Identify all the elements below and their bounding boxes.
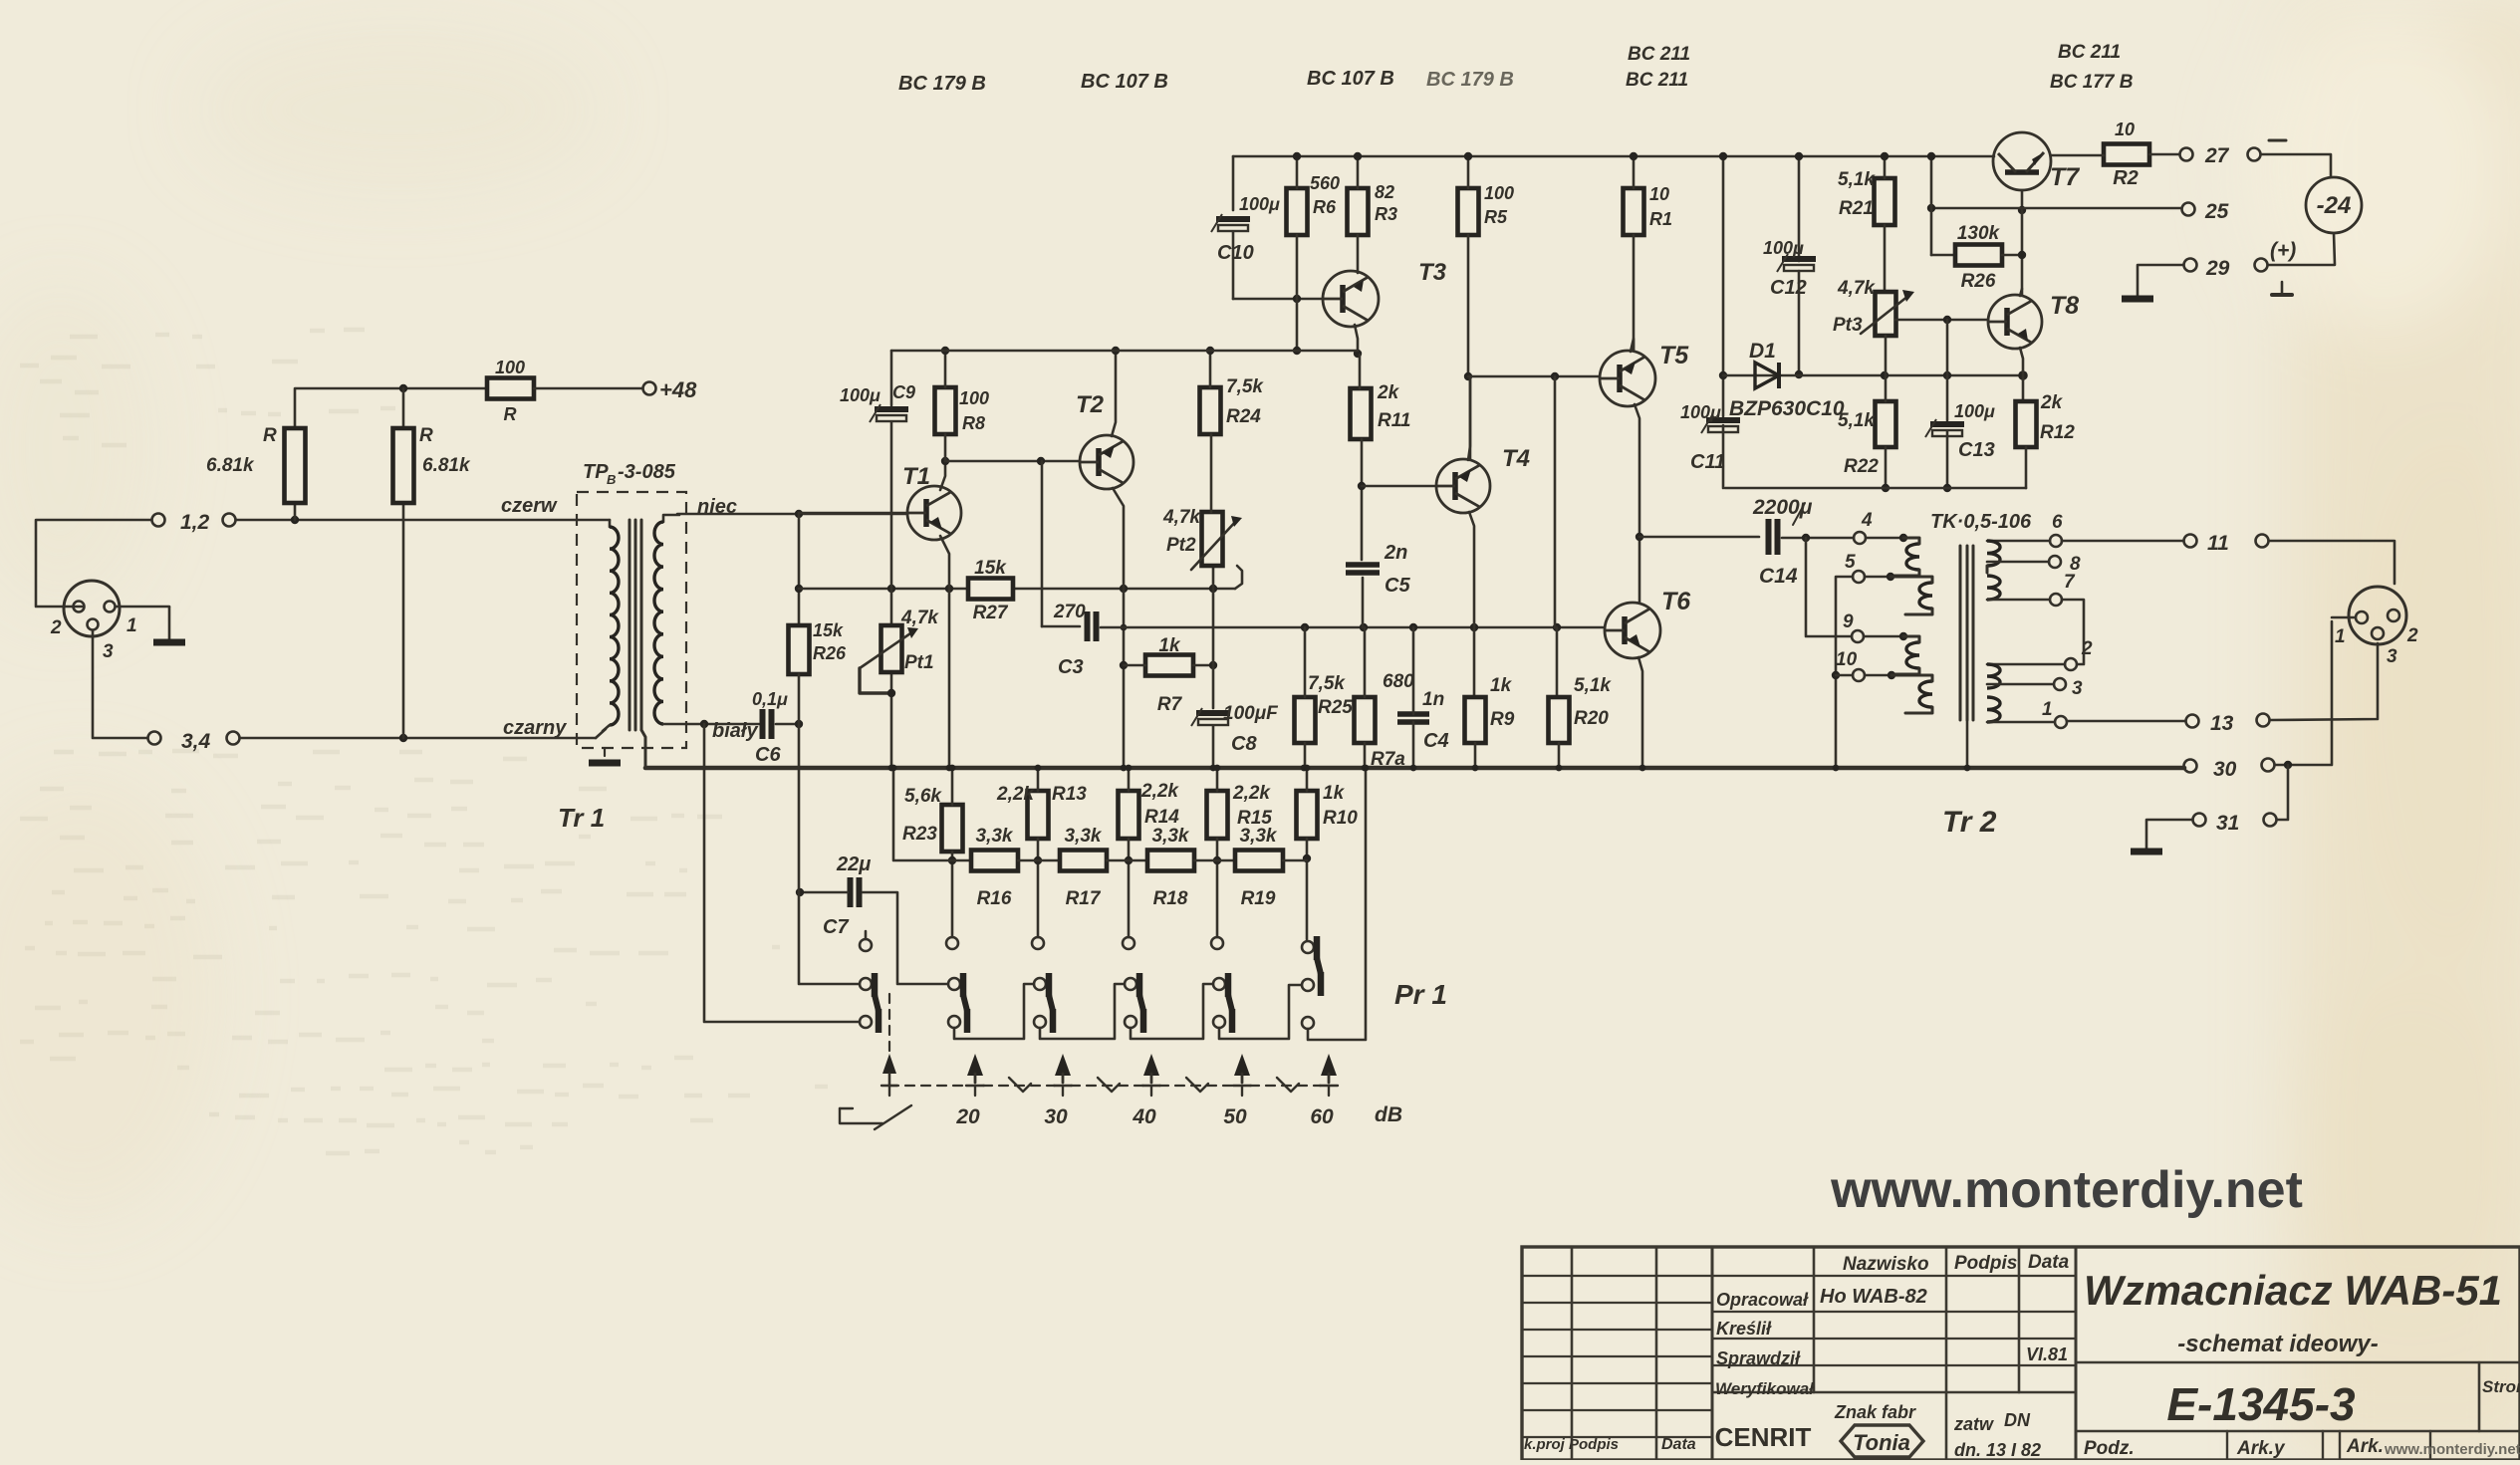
capacitor C9 100u <box>875 406 908 412</box>
terminal 13b <box>2257 714 2270 727</box>
svg-text:BC 107 B: BC 107 B <box>1307 68 1394 90</box>
svg-text:15k: 15k <box>974 558 1007 579</box>
svg-text:3,4: 3,4 <box>181 730 211 753</box>
wire T2 collector to mid rail <box>1112 351 1116 436</box>
transistor T3 <box>1323 271 1379 327</box>
wire C7 left to bialy branch <box>800 891 848 894</box>
terminal 31 <box>2193 814 2206 827</box>
label Ark <box>2339 1431 2341 1460</box>
svg-text:R2: R2 <box>2113 167 2139 189</box>
terminal 6 <box>2050 535 2062 547</box>
svg-text:R3: R3 <box>1375 204 1397 224</box>
svg-text:Data: Data <box>1661 1436 1696 1453</box>
resistor R8 100 <box>935 387 956 434</box>
wire R18-R19 <box>1194 859 1235 862</box>
title block outer frame <box>1522 1247 2520 1460</box>
svg-text:E-1345-3: E-1345-3 <box>2166 1378 2356 1430</box>
svg-text:R: R <box>419 425 433 446</box>
wire minus terminal to -24 supply <box>2261 154 2331 177</box>
terminal 3,4 <box>148 732 161 745</box>
svg-text:100μ: 100μ <box>1680 402 1721 422</box>
terminal 27 <box>2180 148 2193 161</box>
svg-text:R16: R16 <box>977 888 1012 909</box>
terminal 9 <box>1852 630 1864 642</box>
title block middle columns <box>1813 1247 1816 1392</box>
wire terminal 1,2 to transformer czerw <box>236 519 610 522</box>
wire 130k branch <box>1930 208 1933 255</box>
svg-text:C6: C6 <box>755 744 781 766</box>
svg-text:270: 270 <box>1053 602 1086 622</box>
ground XLR pin1 <box>116 606 169 609</box>
svg-text:1: 1 <box>2042 699 2053 720</box>
svg-text:1,2: 1,2 <box>180 511 210 534</box>
svg-text:R27: R27 <box>973 603 1009 623</box>
capacitor C11 100u <box>1706 417 1740 423</box>
svg-text:Pt3: Pt3 <box>1833 315 1863 336</box>
arrow attenuator step 20dB <box>967 1054 983 1076</box>
wire R21 to Pt3 <box>1884 225 1887 292</box>
resistor R16 3,3k <box>971 851 1018 871</box>
wire T1 collector to node R8/T2 base <box>940 461 945 490</box>
svg-text:50: 50 <box>1223 1105 1247 1128</box>
svg-text:Strona: Strona <box>2482 1377 2520 1396</box>
resistor R13 2,2k <box>1028 791 1049 839</box>
svg-text:dn. 13 I 82: dn. 13 I 82 <box>1954 1440 2041 1460</box>
svg-text:2,2k: 2,2k <box>996 784 1035 805</box>
wire switch chain 2-3 <box>954 984 1033 1039</box>
svg-text:13: 13 <box>2210 712 2234 735</box>
label Strona <box>2478 1362 2481 1431</box>
svg-text:5: 5 <box>1845 552 1856 573</box>
terminal 2 <box>2065 658 2077 670</box>
wire T5 base line <box>1468 375 1600 378</box>
svg-text:Weryfikował: Weryfikował <box>1715 1379 1815 1398</box>
wire R26 top branch from niec node <box>798 514 801 625</box>
svg-text:www.monterdiy.net: www.monterdiy.net <box>2384 1441 2520 1458</box>
wire regulator bottom rail <box>1725 487 2026 490</box>
Tr2 secondary winding lower <box>1987 663 2065 666</box>
resistor R1 10 <box>1624 188 1644 235</box>
svg-text:3,3k: 3,3k <box>1240 826 1278 847</box>
Tr1 core <box>629 520 631 730</box>
svg-text:Data: Data <box>2028 1252 2070 1273</box>
svg-text:6: 6 <box>2052 512 2063 533</box>
wire vertical R20 top to base lines <box>1554 376 1557 627</box>
connector XLR input <box>64 581 120 636</box>
svg-text:2n: 2n <box>1384 542 1407 564</box>
wire terminal 11b to XLR pin 2 <box>2269 541 2394 584</box>
svg-text:29: 29 <box>2205 257 2230 280</box>
svg-text:680: 680 <box>1383 671 1414 692</box>
svg-text:Ark.y: Ark.y <box>2236 1438 2286 1459</box>
svg-text:7,5k: 7,5k <box>1226 376 1264 397</box>
svg-text:11: 11 <box>2207 532 2229 555</box>
svg-text:1k: 1k <box>1323 783 1346 804</box>
svg-text:R10: R10 <box>1323 808 1358 829</box>
open contact circles above switches <box>860 939 872 951</box>
terminal 3 <box>2054 678 2066 690</box>
svg-text:4: 4 <box>1861 510 1873 531</box>
svg-text:C7: C7 <box>823 916 849 938</box>
svg-text:20: 20 <box>955 1105 980 1128</box>
wire R16-R17 <box>1018 859 1060 862</box>
svg-text:-24: -24 <box>2317 192 2352 219</box>
svg-text:Ark.: Ark. <box>2346 1436 2384 1457</box>
svg-text:R6: R6 <box>1313 197 1337 217</box>
wire switch chain 3-4 <box>1040 984 1124 1039</box>
svg-text:C11: C11 <box>1690 451 1725 473</box>
svg-text:BC 211: BC 211 <box>1626 70 1688 91</box>
Tr2 secondary winding 7 tap <box>1987 576 2000 600</box>
wire C3 to T6 base (long) <box>1101 626 1605 629</box>
capacitor C13 100u <box>1930 421 1964 427</box>
svg-text:4,7k: 4,7k <box>900 608 939 628</box>
terminal 25 <box>2182 203 2195 216</box>
wire czarny branch down to switch 1 bottom contact <box>704 724 859 1022</box>
wire C3 branch from T2 base node <box>1041 461 1044 626</box>
svg-text:22μ: 22μ <box>836 854 871 875</box>
switch Pr1 unit 3 <box>1034 978 1046 990</box>
wire T7 emitter down <box>2021 190 2024 210</box>
terminal 1 <box>2055 716 2067 728</box>
svg-text:k.proj Podpis: k.proj Podpis <box>1524 1436 1619 1453</box>
svg-text:R9: R9 <box>1490 709 1515 730</box>
svg-text:3: 3 <box>2387 646 2397 667</box>
arrow actuator unit1 <box>882 1054 896 1074</box>
svg-text:R7: R7 <box>1157 694 1183 715</box>
svg-text:R26: R26 <box>1961 271 1996 292</box>
wire T4 base <box>1362 485 1436 488</box>
svg-text:T3: T3 <box>1418 259 1447 286</box>
wire C12 branch vertical <box>1798 156 1801 261</box>
svg-text:2: 2 <box>2081 638 2093 659</box>
logo Tonia hexagon <box>1841 1425 1923 1457</box>
transistor T6 <box>1605 603 1660 658</box>
svg-text:(+): (+) <box>2270 239 2296 262</box>
junction Pt1/ground rail <box>888 765 895 772</box>
terminal 30 <box>2184 760 2197 773</box>
wire R24 bottom to Pt2 <box>1210 434 1213 512</box>
svg-text:7,5k: 7,5k <box>1308 673 1346 694</box>
svg-text:100: 100 <box>495 358 525 377</box>
svg-text:10: 10 <box>1649 184 1669 204</box>
svg-text:4,7k: 4,7k <box>1837 278 1876 299</box>
svg-text:R13: R13 <box>1052 784 1087 805</box>
svg-text:BC 211: BC 211 <box>1628 44 1690 65</box>
wire mid rail <box>891 350 1358 353</box>
arrow attenuator step 40dB <box>1143 1054 1159 1076</box>
terminal 13 <box>2186 715 2199 728</box>
Tr1 primary winding <box>609 520 612 527</box>
terminal 5 <box>1853 571 1865 583</box>
transistor T5 <box>1600 351 1655 406</box>
wire attenuator chain left end to ground rail <box>893 768 971 860</box>
wire T2 emitter down <box>1113 488 1124 589</box>
svg-text:5,1k: 5,1k <box>1838 410 1876 431</box>
svg-text:czerw: czerw <box>501 495 558 517</box>
svg-text:31: 31 <box>2216 812 2239 835</box>
svg-text:R: R <box>263 425 277 446</box>
ground plus terminal <box>2281 282 2284 294</box>
switch actuator dashed link unit1 <box>888 994 890 1052</box>
svg-text:BC 179 B: BC 179 B <box>898 73 986 95</box>
svg-text:Podpis: Podpis <box>1954 1253 2017 1274</box>
Tr2 primary winding upper <box>1867 537 1903 540</box>
svg-text:R11: R11 <box>1378 410 1410 431</box>
wire T5/T6 node to C14 <box>1639 536 1759 539</box>
svg-text:T5: T5 <box>1659 342 1689 369</box>
svg-text:BC 177 B: BC 177 B <box>2050 72 2134 93</box>
svg-text:B: B <box>607 472 616 487</box>
resistor R20 5,1k <box>1549 697 1570 743</box>
wire T8 collector <box>2020 289 2022 296</box>
svg-text:Kreślił: Kreślił <box>1716 1319 1772 1339</box>
capacitor C7 22u <box>848 877 854 907</box>
wire main ground rail net 30 <box>645 766 2184 771</box>
wire switch chain 5-6 <box>1219 985 1301 1039</box>
ground Tr1 shield <box>604 748 606 763</box>
wire R3 to T3 emitter <box>1357 235 1360 273</box>
svg-text:9: 9 <box>1843 611 1854 632</box>
wire Tr2 core to ground rail <box>1966 720 1969 768</box>
connector XLR output <box>2349 587 2406 644</box>
svg-text:Tr 2: Tr 2 <box>1942 806 1997 839</box>
terminal 7 <box>2050 594 2062 606</box>
wire T7 to R2 to terminal 27 <box>2051 154 2104 157</box>
wire R11 bottom to T4 base and C5 <box>1361 439 1364 560</box>
svg-text:T4: T4 <box>1502 445 1530 472</box>
svg-text:0,1μ: 0,1μ <box>752 689 788 709</box>
svg-text:R20: R20 <box>1574 708 1609 729</box>
svg-text:T2: T2 <box>1076 391 1105 418</box>
svg-text:3,3k: 3,3k <box>1065 826 1103 847</box>
svg-text:6.81k: 6.81k <box>422 455 471 476</box>
wire T8 emitter to R12 <box>2020 348 2023 401</box>
wire C10 branch <box>1232 156 1235 210</box>
svg-text:27: 27 <box>2204 144 2230 167</box>
transistor T1 <box>907 486 961 540</box>
terminal 10 <box>1853 669 1865 681</box>
svg-text:R24: R24 <box>1226 406 1261 427</box>
wire bialy node <box>704 723 759 726</box>
svg-text:BC 107 B: BC 107 B <box>1081 71 1168 93</box>
svg-text:czarny: czarny <box>503 717 567 739</box>
svg-text:3,3k: 3,3k <box>1152 826 1190 847</box>
wire terminal 13b to XLR pin 3 branch <box>2270 643 2378 720</box>
svg-text:3,3k: 3,3k <box>976 826 1014 847</box>
arrow attenuator step 30dB <box>1055 1054 1071 1076</box>
potentiometer Pt2 4,7k <box>1202 512 1223 566</box>
svg-text:CENRIT: CENRIT <box>1715 1422 1812 1452</box>
wire R8 bottom to T2 base node <box>944 434 947 461</box>
svg-text:C9: C9 <box>892 382 915 402</box>
svg-text:Pr 1: Pr 1 <box>1394 979 1447 1010</box>
svg-text:Podz.: Podz. <box>2084 1438 2135 1459</box>
wire T5 collector <box>1631 339 1634 352</box>
resistor R 6.81k (left) <box>285 428 306 503</box>
resistor R7a 680 <box>1355 697 1376 743</box>
resistor R10 1k <box>1297 791 1318 839</box>
wire R17-R18 <box>1107 859 1147 862</box>
svg-text:R26: R26 <box>813 643 847 663</box>
wire T3 collector to mid rail <box>1355 325 1358 355</box>
svg-text:R18: R18 <box>1153 888 1188 909</box>
wire switch 6 bottom to ground riser <box>1302 1017 1314 1029</box>
svg-text:www.monterdiy.net: www.monterdiy.net <box>1830 1161 2303 1219</box>
wire R1 down to T5 collector <box>1633 235 1636 351</box>
transformer Tr1 TPB-3-085 dashed enclosure <box>577 492 686 748</box>
wire T1 emitter down to ground rail <box>940 536 949 768</box>
capacitor C14 2200u <box>1766 519 1772 555</box>
svg-text:dB: dB <box>1375 1103 1402 1126</box>
switch interlock symbol <box>840 1107 853 1109</box>
switch Pr1 unit 1 <box>860 978 872 990</box>
ground terminal 29 <box>2138 265 2183 297</box>
wire to +48 terminal <box>534 387 642 390</box>
capacitor C4 1n <box>1397 711 1429 717</box>
svg-text:R14: R14 <box>1144 807 1179 828</box>
ground terminal 31 <box>2146 820 2192 850</box>
wire terminal 1 to 13 <box>2067 720 2185 723</box>
svg-text:30: 30 <box>1044 1105 1068 1128</box>
svg-text:100μ: 100μ <box>1239 194 1280 214</box>
resistor R6 560 <box>1287 188 1308 235</box>
svg-text:Ho WAB-82: Ho WAB-82 <box>1820 1286 1927 1308</box>
svg-text:R25: R25 <box>1318 697 1353 718</box>
svg-text:R7a: R7a <box>1371 749 1405 770</box>
wire +48 feed <box>294 503 297 520</box>
capacitor C5 2n <box>1346 562 1380 568</box>
svg-text:D1: D1 <box>1749 340 1776 363</box>
svg-text:2k: 2k <box>1377 382 1400 403</box>
svg-text:DN: DN <box>2004 1410 2031 1430</box>
svg-text:R21: R21 <box>1839 198 1874 219</box>
Tr2 primary winding lower <box>1864 635 1903 638</box>
Tr1 secondary winding <box>663 515 679 522</box>
capacitor C3 270 <box>1042 625 1080 628</box>
wire supply line to terminal 25 <box>1931 207 2181 210</box>
capacitor C6 0,1u <box>760 709 766 739</box>
wire Pt3 bottom to D1 line <box>1885 336 1888 375</box>
Tr2 core <box>1959 546 1962 720</box>
resistor R14 2,2k <box>1119 791 1139 839</box>
svg-text:R17: R17 <box>1066 888 1102 909</box>
switch Pr1 unit 5 <box>1213 978 1225 990</box>
svg-text:6.81k: 6.81k <box>206 455 255 476</box>
svg-text:-3-085: -3-085 <box>618 461 676 483</box>
svg-text:100: 100 <box>1484 183 1514 203</box>
terminal minus <box>2248 148 2261 161</box>
wire T8 base branch to C13 <box>1946 320 1949 375</box>
diode D1 BZP630C10 <box>1723 374 2023 377</box>
svg-text:R8: R8 <box>962 413 985 433</box>
wire terminal 6 to 11 <box>2062 540 2183 543</box>
potentiometer Pt3 4,7k <box>1876 292 1896 336</box>
terminal 1,2 <box>152 514 165 527</box>
resistor R 100 (+48 feed) <box>487 378 534 399</box>
wire -24 to plus terminal <box>2268 233 2335 265</box>
wire C7 right to switch 2 <box>863 892 947 984</box>
svg-text:zatw: zatw <box>1953 1414 1994 1434</box>
svg-text:BZP630C10: BZP630C10 <box>1729 397 1845 420</box>
resistor R15 2,2k <box>1207 791 1228 839</box>
capacitor C10 100u <box>1216 216 1250 222</box>
resistor R5 100 <box>1458 188 1479 235</box>
wire T4 collector up <box>1468 376 1470 460</box>
resistor R26 15k <box>789 625 810 674</box>
svg-text:C5: C5 <box>1385 575 1410 597</box>
svg-text:1k: 1k <box>1158 635 1181 656</box>
resistor R22 5,1k <box>1876 401 1896 447</box>
wire C14 to terminal 4 and tap 9 <box>1782 537 1854 540</box>
switch Pr1 unit 4 <box>1125 978 1136 990</box>
terminal +48 <box>643 382 656 395</box>
svg-text:2,2k: 2,2k <box>1140 781 1179 802</box>
svg-text:560: 560 <box>1310 173 1340 193</box>
resistor R7 1k <box>1145 655 1193 676</box>
terminal 31b <box>2264 814 2277 827</box>
svg-text:10: 10 <box>2115 120 2135 139</box>
Tr2 secondary winding upper <box>1987 540 2050 543</box>
svg-text:5,1k: 5,1k <box>1838 169 1876 190</box>
svg-text:T6: T6 <box>1661 588 1691 615</box>
svg-text:15k: 15k <box>813 620 844 640</box>
wire XLR pin2 to terminal 1,2 <box>36 520 151 607</box>
svg-text:40: 40 <box>1132 1105 1156 1128</box>
svg-text:1: 1 <box>126 615 137 636</box>
svg-text:R22: R22 <box>1844 456 1879 477</box>
switch Pr1 unit 6 <box>1302 941 1314 953</box>
svg-text:T8: T8 <box>2050 292 2079 320</box>
svg-text:130k: 130k <box>1957 223 2001 244</box>
svg-text:Znak fabr: Znak fabr <box>1834 1402 1916 1422</box>
wire R24 top to mid rail <box>1209 351 1212 387</box>
svg-text:BC 211: BC 211 <box>2058 42 2121 63</box>
svg-text:2: 2 <box>50 617 62 638</box>
potentiometer Pt1 4,7k <box>882 625 902 672</box>
wire terminal 7 to terminal 2 bridge <box>2062 600 2084 664</box>
resistor R28 130k <box>1955 245 2002 266</box>
svg-text:1n: 1n <box>1422 689 1444 710</box>
terminal 30b <box>2262 759 2275 772</box>
wire bialy branch down to switch 1 top contact <box>799 724 859 984</box>
resistor R18 3,3k <box>1147 851 1194 871</box>
resistor R17 3,3k <box>1060 851 1107 871</box>
resistor R11 2k <box>1351 388 1372 439</box>
wire T4 emitter down to R9 <box>1469 512 1474 697</box>
wire Tr1 core to ground rail <box>641 730 645 768</box>
svg-text:3: 3 <box>103 641 114 662</box>
svg-text:Tr 1: Tr 1 <box>558 803 605 833</box>
switch Pr1 unit 2 <box>948 978 960 990</box>
svg-text:BC 179 B: BC 179 B <box>1426 69 1514 91</box>
svg-text:C4: C4 <box>1423 730 1449 752</box>
wire T2 base <box>945 460 1080 463</box>
svg-text:10: 10 <box>1836 649 1858 670</box>
wire T5 emitter down to C14 node and T6 collector <box>1635 404 1639 603</box>
terminal 29 <box>2184 259 2197 272</box>
svg-text:1k: 1k <box>1490 675 1513 696</box>
terminal 4 <box>1854 532 1866 544</box>
wire terminal 31b to 30 node <box>2277 765 2288 820</box>
transistor T7 <box>1993 132 2051 190</box>
capacitor C12 100u <box>1782 256 1816 262</box>
resistor R25 7,5k <box>1295 697 1316 743</box>
svg-text:T1: T1 <box>902 463 930 490</box>
wire terminal 3,4 to transformer czarny <box>240 737 596 740</box>
svg-text:2,2k: 2,2k <box>1232 783 1271 804</box>
resistor R9 1k <box>1465 697 1486 743</box>
